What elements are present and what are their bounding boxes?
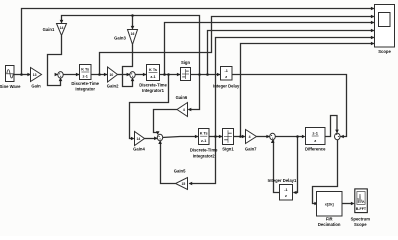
arrow: into sum2 left [127,73,131,77]
wire: scope line 4 (Sign output up to Scope in4) [208,31,374,75]
arrow: into Scope in3 [371,21,375,25]
block: Difference [305,128,326,152]
arrow: into sum1 bottom [59,78,63,82]
svg-text:Gain1: Gain1 [43,27,55,32]
svg-text:z: z [285,194,287,198]
wire: Integrator1 output to Sign [160,74,181,76]
block: Gain7 (triangle) [245,130,257,152]
arrow: into FIR Decimation [314,202,318,206]
svg-text:Gain4: Gain4 [133,147,145,152]
node: junction Sign1 output [239,135,242,138]
block: Gain3 (down triangle) [114,30,137,45]
svg-text:Spectrum: Spectrum [351,216,371,221]
svg-text:Gain7: Gain7 [245,146,257,151]
svg-text:Discrete-Time: Discrete-Time [190,148,218,153]
block: Gain4 (triangle) [133,132,145,152]
svg-text:Gain3: Gain3 [114,36,126,41]
arrow: into sum5 top [335,130,339,134]
wire: Sine Wave output to Gain input [14,74,30,76]
svg-text:14: 14 [137,137,141,141]
arrow: into Integer Delay1 right [293,191,297,195]
svg-text:z-1: z-1 [150,75,155,79]
arrow: into Scope in2 [371,15,375,19]
svg-text:4: 4 [183,108,185,112]
arrow: into Gain5 right [189,182,193,186]
wire: Difference output wrap over into sum5 top [325,116,337,137]
svg-text:Integrator: Integrator [75,87,95,92]
svg-text:K Ts: K Ts [81,68,89,72]
wire: Integer Delay output right, down, left into sum5 right [232,75,347,137]
wire: Gain2 output to sum2 [118,74,130,76]
arrow: into Sign [177,73,181,77]
arrow: into sum4 bottom [271,139,275,143]
svg-text:13: 13 [33,73,37,77]
arrow: into Scope in1 [371,7,375,11]
svg-text:Scope: Scope [354,222,367,227]
arrow: into sum4 left [266,135,270,139]
block: Discrete-Time Integrator2 [190,129,218,159]
wire: feedback branch down into Gain3 top [132,16,134,29]
svg-text:z-1: z-1 [83,74,88,78]
arrow: into Discrete-Time Integrator1 [143,73,147,77]
block: Sign [181,60,191,81]
arrow: into Gain6 right [188,108,192,112]
arrow: into Scope in4 [371,29,375,33]
arrow: into Sign1 [219,135,223,139]
wire: integrator1 output down and left to Gain4 input [130,75,169,139]
node: junction feedback at Gain3 [131,14,134,17]
block: Spectrum Scope [351,189,371,227]
wire: Sign output down to Gain6 input [188,75,199,110]
wire: scope line 5 (integrator2 output up to Scope in5) [216,38,374,137]
svg-text:K Ts: K Ts [149,68,157,72]
node: junction sine output [20,73,23,76]
arrow: into Gain [27,73,31,77]
svg-text:Decimation: Decimation [318,222,341,227]
svg-text:4: 4 [249,135,251,139]
svg-text:10: 10 [110,73,114,77]
block: sum5 circle [335,133,341,140]
wire: Gain1 output down-left-down wrap into sum1 bottom [48,36,62,86]
block: Scope [375,5,395,55]
wire: Gain6 output left then down into sum3 top [154,110,178,134]
wire: Gain3 output down-left-down wrap into sum2 bottom [123,45,133,87]
block: Gain (triangle) [31,68,42,89]
node: junction Sign output a [198,73,201,76]
block: Sine Wave source [0,66,21,90]
svg-text:Gain6: Gain6 [176,95,188,100]
wire: sum3 output to Discrete-Time Integrator2 [162,137,198,138]
svg-text:Integrator1: Integrator1 [142,88,165,93]
arrow: into Scope in5 [371,36,375,40]
wire: Discrete-Time Integrator output to Gain2 [91,74,107,76]
svg-text:z: z [314,138,316,143]
block: sum3 circle [157,134,162,140]
arrow: into sum1 left [55,73,59,77]
wire: feedback line from Sign output up then left to Gain1 top [62,16,200,75]
node: junction integrator1 output a [163,73,166,76]
wire: scope line 3 (integrator1 output up to Scope in3) [165,23,374,75]
svg-text:Discrete-Time: Discrete-Time [71,81,99,86]
arrow: into Spectrum Scope [351,202,355,206]
svg-text:Scope: Scope [378,49,391,54]
block: sum4 circle [270,133,276,140]
svg-text:Sign: Sign [181,60,191,65]
node: junction integrator output [98,73,101,76]
svg-text:Gain2: Gain2 [107,84,119,89]
wire: sum2 output to Discrete-Time Integrator1 [135,74,146,76]
block: Gain6 (left triangle) [176,95,188,117]
svg-text:Difference: Difference [305,146,326,151]
arrow: into sum3 left [154,137,158,141]
block: Gain2 (triangle) [107,67,119,89]
wire: FIR Decimation output to Spectrum Scope [342,203,353,205]
svg-text:z-1: z-1 [201,139,206,143]
svg-text:Sign1: Sign1 [222,146,234,151]
block: Gain5 (left triangle) [174,168,188,189]
node: junction sum4 output [296,135,299,138]
arrow: into Gain1 top [60,20,64,24]
arrow: into Integer Delay [217,73,221,77]
wire: Integrator2 output to Sign1 [209,136,222,138]
wire: Sign1 output to Gain7 [234,136,245,138]
arrow: into Gain2 [104,73,108,77]
block: Integer Delay1 (mirrored, label above) [268,178,297,200]
arrow: into sum3 top [156,131,160,135]
svg-text:-1: -1 [225,69,228,73]
wire: Gain5 output left then up into sum3 bottom [161,141,176,183]
svg-text:15: 15 [182,182,186,186]
svg-text:Gain5: Gain5 [174,168,186,173]
svg-text:x[2k]: x[2k] [325,202,335,206]
block: Gain1 (down triangle) [43,24,67,36]
arrow: into Scope in6 [371,42,375,46]
arrow: into Gain7 [242,135,246,139]
svg-text:16: 16 [131,32,135,36]
svg-text:-1: -1 [284,188,287,192]
svg-text:FIR: FIR [326,216,333,221]
node: junction integrator2 output [214,135,217,138]
block: Discrete-Time Integrator [71,65,99,92]
wire: sum4 output to Difference [275,136,302,138]
wire: Gain7 output to sum4 [257,136,270,138]
svg-text:Integer Delay: Integer Delay [213,83,240,88]
svg-text:14: 14 [60,26,64,30]
wire: sum5 output down, left, down, right into FIR Decimation [313,139,338,203]
wire: scope line 2 (integrator output up over to Scope in2) [100,17,374,75]
svg-text:Sine Wave: Sine Wave [0,84,21,89]
svg-text:z-1: z-1 [312,131,318,136]
arrow: into sum5 right [340,135,344,139]
block: FIR Decimation [317,192,343,228]
arrow: into Discrete-Time Integrator2 [195,135,199,139]
arrow: into Gain3 top [131,26,135,30]
arrow: into sum2 bottom [131,78,135,82]
svg-text:Integrator2: Integrator2 [193,153,216,158]
node: junction Sign output b [206,73,209,76]
block: Discrete-Time Integrator1 [139,65,167,94]
block: Sign1 [222,129,234,152]
arrow: into Discrete-Time Integrator [76,73,80,77]
arrow: into sum3 bottom [158,140,162,144]
svg-text:Discrete-Time: Discrete-Time [139,82,167,87]
wire: scope line 1 (from sine output junction up and right to Scope in1) [22,9,374,75]
svg-text:z: z [225,75,227,79]
arrow: into Difference [302,135,306,139]
svg-text:Integer Delay1: Integer Delay1 [268,178,297,183]
svg-text:K Ts: K Ts [200,132,208,136]
arrow: into Gain4 left [131,137,135,141]
wire: sum1 output to Discrete-Time Integrator [63,74,79,76]
node: junction integrator1 output b [167,73,170,76]
wire: Integer Delay1 output left then up into sum4 bottom [274,140,280,192]
svg-text:Gain: Gain [31,84,41,89]
block: sum2 circle [130,72,135,78]
wire: sum4 output down then left into Integer Delay1 right input [293,137,297,193]
svg-text:B-FFT: B-FFT [356,207,367,211]
block: Integer Delay [213,67,240,89]
block: sum1 circle [58,72,63,78]
wire: scope line 6 (Sign1 output up to Scope in6) [241,44,374,137]
wire: Sign output to Integer Delay [191,74,221,76]
wire: integrator2 output down then left to Gain5 input [189,137,215,184]
wire: Gain4 output to sum3 left [145,138,157,140]
